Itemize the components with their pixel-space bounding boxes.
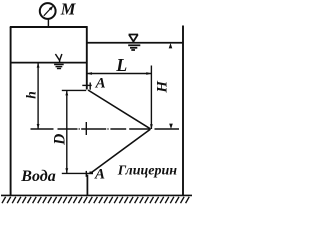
svg-text:M: M (60, 0, 77, 19)
ground hatching (2, 197, 189, 203)
tank left wall (10, 27, 12, 195)
cone upper slant (88, 90, 151, 129)
point A top cross (82, 83, 91, 90)
svg-text:Вода: Вода (20, 168, 55, 185)
manometer needle (44, 8, 52, 16)
svg-text:H: H (154, 80, 170, 94)
extension line from cone apex (right end of L) (150, 66, 152, 130)
tank water level symbol (V + hatches) (54, 54, 64, 69)
manometer M gauge circle (40, 3, 56, 19)
blob at lower slant end (89, 172, 93, 175)
dimension D line (66, 90, 68, 173)
dimension h line (37, 63, 39, 129)
svg-text:L: L (115, 55, 127, 75)
svg-text:Глицерин: Глицерин (117, 164, 177, 179)
dimension L line (87, 73, 152, 75)
cone lower slant (92, 129, 151, 172)
manometer needle arrowhead (49, 6, 54, 11)
L left arrow (87, 72, 92, 75)
tank top wall (10, 26, 88, 28)
tank right wall upper (86, 26, 88, 89)
svg-text:h: h (24, 91, 39, 99)
svg-text:A: A (95, 75, 106, 91)
ground line (1, 194, 192, 196)
right reservoir wall (182, 26, 184, 196)
small down arrow above centerline near wall (H dim mark) (169, 124, 173, 129)
water surface line in tank (11, 62, 87, 64)
D top extension line (62, 89, 86, 91)
D top arrow (65, 91, 68, 96)
manometer stem (47, 19, 49, 27)
svg-text:D: D (52, 134, 69, 146)
glycerin level symbol (nabla + hatches) (129, 35, 139, 43)
D bottom arrow (65, 168, 68, 173)
small level tick arrow on glycerin surface (169, 43, 173, 48)
axis centerline (dash-dot) (31, 128, 180, 130)
tank right wall lower piece (86, 175, 88, 196)
h bottom arrow (37, 124, 40, 129)
centre cross tick on axis (85, 122, 87, 135)
D bottom extension line (62, 172, 90, 174)
h top arrow (37, 63, 40, 68)
glycerin free surface line (87, 42, 183, 44)
point A bottom cross (85, 171, 87, 177)
svg-text:A: A (94, 167, 105, 183)
down arrow at apex on extension line (150, 124, 153, 129)
L right arrow (146, 72, 151, 75)
